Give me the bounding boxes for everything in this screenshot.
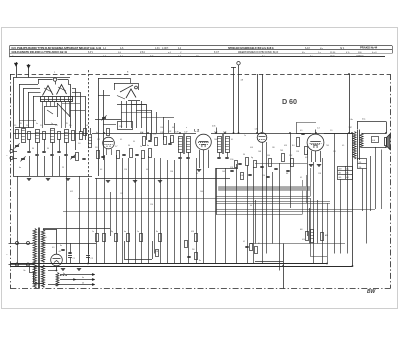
svg-text:8a: 8a (60, 245, 62, 247)
svg-text:400: 400 (300, 229, 303, 231)
block A second row caps (20, 139, 75, 176)
svg-text:1.7: 1.7 (115, 146, 117, 148)
svg-text:150: 150 (192, 249, 195, 251)
svg-text:25 %: 25 % (330, 55, 335, 57)
detector stage nested rectangles (216, 168, 375, 215)
svg-text:1.9: 1.9 (86, 125, 88, 127)
svg-text:1.67: 1.67 (349, 127, 352, 129)
svg-text:1.43: 1.43 (222, 171, 225, 173)
IF transformer 2 coils (212, 126, 230, 159)
svg-text:L 2: L 2 (194, 129, 199, 133)
svg-text:6 A 8: 6 A 8 (305, 47, 311, 50)
svg-text:SPOELEN AFGEREGELD 452 kc/s 6: SPOELEN AFGEREGELD 452 kc/s 6A8 G (228, 47, 274, 50)
svg-text:1.16: 1.16 (119, 126, 122, 128)
svg-text:1.OKT.: 1.OKT. (162, 48, 169, 50)
block A top frame (13, 78, 70, 177)
svg-text:4.63: 4.63 (339, 168, 342, 170)
block A extra right components (76, 129, 87, 161)
svg-text:8p: 8p (111, 231, 113, 233)
valve V2 electrodes (117, 85, 140, 101)
antenna A1 (14, 62, 18, 78)
svg-text:1.20: 1.20 (124, 169, 127, 171)
svg-text:8a: 8a (24, 270, 26, 272)
draughtsman signature BW (367, 289, 377, 295)
svg-text:4.2: 4.2 (243, 241, 245, 243)
valve V4 pin wires (309, 151, 321, 167)
misc value annotations (20, 123, 344, 207)
bus wire y201 right (216, 201, 330, 203)
svg-text:4.3: 4.3 (100, 169, 102, 171)
block B right stair frame (131, 104, 164, 140)
output transformer T2 (349, 119, 366, 161)
svg-text:4.9: 4.9 (52, 247, 54, 249)
bias components above bus (185, 241, 260, 263)
svg-text:1.22: 1.22 (120, 193, 123, 195)
valve V1 electrodes (43, 85, 67, 96)
svg-text:1.50: 1.50 (230, 159, 233, 161)
AVC shaded bus bar (219, 187, 311, 191)
block A right stair frame (62, 84, 86, 150)
rectifier output wire (43, 244, 57, 271)
IF transformer 1 coils (175, 132, 191, 179)
svg-text:4g: 4g (251, 157, 253, 159)
svg-text:4.1: 4.1 (300, 177, 302, 179)
svg-text:4 %: 4 % (150, 55, 154, 57)
svg-text:4.4: 4.4 (172, 127, 174, 129)
svg-text:4a: 4a (124, 231, 126, 233)
svg-text:50: 50 (243, 154, 245, 156)
AVC line vertical (262, 74, 264, 132)
svg-text:1.8: 1.8 (95, 147, 97, 149)
coupling cluster C-L1 (140, 133, 158, 146)
svg-text:150: 150 (272, 147, 275, 149)
tuning gang dashed link (88, 70, 90, 180)
svg-text:4a: 4a (82, 277, 84, 279)
svg-text:1.9: 1.9 (330, 130, 332, 132)
svg-text:1.40: 1.40 (200, 191, 203, 193)
HT+ bus double line (10, 264, 352, 267)
detector stage components (230, 150, 294, 180)
svg-text:1.5: 1.5 (69, 125, 71, 127)
svg-text:4.4: 4.4 (250, 205, 252, 207)
block B mid row labels (96, 129, 143, 136)
svg-text:6 N 7: 6 N 7 (214, 52, 220, 54)
svg-text:460: 460 (339, 173, 342, 175)
valve V1 base (pins bar) (40, 97, 73, 102)
block B left frame verticals (95, 78, 131, 176)
bus wire y211 (63, 211, 352, 213)
svg-text:4 %: 4 % (346, 52, 350, 54)
valve V3 envelope (196, 134, 212, 150)
output step wires (310, 198, 328, 264)
svg-text:50: 50 (128, 145, 130, 147)
svg-text:4.8: 4.8 (241, 80, 243, 82)
schematic dashed border (10, 74, 390, 289)
valve V3 pin wires (197, 150, 209, 172)
mains switch (24, 267, 35, 273)
svg-text:a: a (186, 127, 187, 129)
svg-text:4.07: 4.07 (305, 157, 308, 159)
svg-text:743: 743 (280, 150, 283, 152)
return corner x283 (255, 244, 284, 289)
wire from switch to IF (231, 67, 236, 133)
svg-text:30: 30 (32, 148, 34, 150)
svg-text:4.61: 4.61 (339, 177, 342, 179)
speaker terminal labels (358, 159, 367, 169)
title block row 1 text (12, 46, 378, 50)
svg-text:4.35: 4.35 (212, 126, 215, 128)
title block row 3 text (12, 55, 364, 57)
valve V5 detector envelope (255, 129, 267, 143)
svg-text:8a: 8a (156, 231, 158, 233)
svg-text:4b: 4b (82, 283, 84, 285)
svg-text:50: 50 (258, 243, 260, 245)
HT feed vertical (241, 74, 258, 133)
svg-text:1a: 1a (92, 231, 94, 233)
svg-text:WEERSTANDEN IN OHM COND. IN p: WEERSTANDEN IN OHM COND. IN pF (238, 51, 279, 54)
svg-text:1.30: 1.30 (160, 127, 163, 129)
svg-text:8.8: 8.8 (286, 173, 288, 175)
valve V2 pin wires (117, 101, 151, 128)
block B small grid box (118, 122, 133, 130)
svg-text:1.3 b: 1.3 b (155, 48, 161, 50)
output transformer top wire (324, 122, 387, 134)
svg-text:1936/37: 1936/37 (356, 55, 364, 57)
block A bottom bus (13, 177, 92, 181)
svg-text:1.12: 1.12 (97, 139, 100, 141)
long drop wires (decoupling comb) (18, 133, 376, 271)
HT rail y243 right (250, 243, 345, 245)
HT wire from rectifier (43, 229, 111, 244)
svg-text:1.53: 1.53 (296, 151, 299, 153)
valve V1 top cap (53, 78, 56, 85)
valve V1 anode slant wiring (44, 103, 70, 125)
svg-text:1.1: 1.1 (14, 125, 16, 127)
svg-text:1.2: 1.2 (26, 125, 28, 127)
svg-text:1.44: 1.44 (214, 139, 217, 141)
svg-text:4a: 4a (19, 167, 21, 169)
decoupling resistors row y236 (92, 231, 198, 242)
svg-text:1n: 1n (137, 231, 139, 233)
block B bottom bus (95, 179, 230, 183)
speaker return wire (381, 150, 383, 210)
svg-text:1.51: 1.51 (230, 167, 233, 169)
svg-text:1.11: 1.11 (333, 151, 336, 153)
svg-text:8a: 8a (199, 260, 201, 262)
svg-text:7.45: 7.45 (326, 145, 329, 147)
svg-text:1.58: 1.58 (318, 173, 321, 175)
block A value labels (14, 125, 80, 169)
svg-text:1.4a: 1.4a (350, 119, 353, 121)
valve V2 top frame (114, 83, 139, 90)
svg-text:1n: 1n (140, 146, 142, 148)
aerial-earth terminals on left border (7, 150, 18, 160)
filter capacitor C2 (86, 243, 94, 264)
svg-text:25 30: 25 30 (330, 52, 336, 54)
svg-text:2.5 A: 2.5 A (140, 51, 145, 54)
valve V4 grid components (292, 123, 316, 155)
svg-text:5.0: 5.0 (45, 237, 47, 239)
svg-text:4.64: 4.64 (372, 140, 375, 142)
svg-text:30: 30 (47, 148, 49, 150)
svg-text:50: 50 (196, 173, 198, 175)
svg-text:745: 745 (359, 162, 362, 164)
output decoupling cluster (300, 229, 328, 243)
block B bias components (95, 145, 152, 159)
valve V1 pin wires below base (43, 101, 70, 128)
svg-text:4n: 4n (36, 123, 38, 125)
svg-text:4.04: 4.04 (240, 175, 243, 177)
rectifier valve V6 (43, 229, 62, 266)
title block row 2 text (12, 50, 378, 54)
title block frame (10, 46, 393, 58)
block A tuning row components (14, 129, 82, 149)
svg-text:4.8: 4.8 (59, 251, 61, 253)
screen feed vertical right (349, 74, 351, 133)
svg-text:4a: 4a (147, 145, 149, 147)
svg-text:8.4: 8.4 (292, 145, 294, 147)
power transformer T1 primary (33, 229, 36, 288)
heater supply arrows (48, 271, 95, 287)
svg-text:1.36: 1.36 (170, 171, 173, 173)
oscillator coupling cluster (160, 131, 174, 145)
speaker wires (362, 132, 387, 148)
svg-text:1.32: 1.32 (168, 131, 171, 133)
svg-text:746: 746 (359, 167, 362, 169)
svg-text:6.3 V: 6.3 V (88, 52, 94, 54)
svg-text:4.12: 4.12 (70, 191, 73, 193)
svg-text:1.54: 1.54 (262, 175, 265, 177)
voltage table (338, 166, 353, 180)
svg-text:4.05: 4.05 (250, 147, 253, 149)
stair wires to IF row (163, 118, 175, 134)
antenna A2 (27, 64, 31, 78)
svg-text:150: 150 (267, 155, 270, 157)
loudspeaker (385, 134, 391, 150)
dial lamp (237, 62, 240, 134)
svg-text:4.5: 4.5 (342, 145, 344, 147)
valve V4 envelope (output) (307, 128, 324, 151)
svg-text:4.59: 4.59 (191, 231, 194, 233)
svg-text:1.4: 1.4 (55, 125, 57, 127)
mains to primary corner wire (34, 273, 45, 284)
grid resistor R5 (86, 125, 92, 148)
svg-text:1n: 1n (244, 135, 246, 137)
AVC return wire y198 (78, 198, 310, 200)
mains input terminals (7, 242, 34, 267)
svg-text:BW: BW (367, 289, 377, 295)
svg-text:4.55: 4.55 (284, 145, 287, 147)
small caps at bus left (60, 245, 81, 276)
detector output wire y163 (255, 163, 307, 165)
svg-text:4.10: 4.10 (302, 239, 305, 241)
filter capacitor C1 (68, 243, 76, 264)
svg-text:4.9: 4.9 (300, 130, 302, 132)
power transformer T1 heater secondary (41, 265, 44, 287)
coil labels above blocks (54, 72, 129, 74)
svg-text:GOLFLENGTE 200-2000 m TYPE AKK: GOLFLENGTE 200-2000 m TYPE AKKU 4.B 41 (12, 50, 68, 54)
svg-text:4.1: 4.1 (120, 139, 122, 141)
svg-text:1.48: 1.48 (258, 151, 261, 153)
svg-text:4.1: 4.1 (231, 139, 233, 141)
speaker matching box 4.64 (372, 137, 379, 143)
svg-text:50: 50 (133, 141, 135, 143)
power transformer T1 core (39, 228, 40, 289)
tone network U-loop (124, 241, 159, 260)
svg-text:D 60: D 60 (282, 97, 297, 106)
svg-text:1.6: 1.6 (78, 143, 80, 145)
svg-text:4.5a: 4.5a (362, 119, 365, 121)
svg-text:25: 25 (62, 167, 64, 169)
svg-text:N.V. PHILIPS RADIO TYPE D-60 S: N.V. PHILIPS RADIO TYPE D-60 SCHEMA APPA… (12, 46, 102, 50)
svg-text:4.6: 4.6 (146, 169, 148, 171)
main signal row wire (13, 133, 352, 135)
block A left stair frame (15, 84, 41, 128)
screen rail vertical x352 (352, 133, 354, 266)
svg-text:PRAXIS Nr.44: PRAXIS Nr.44 (360, 46, 378, 50)
valve V2a envelope (mixer circle) (103, 137, 115, 155)
svg-text:1.3: 1.3 (40, 125, 42, 127)
svg-text:1n: 1n (51, 123, 53, 125)
svg-text:1.24: 1.24 (150, 204, 153, 206)
power transformer T1 HT secondary (41, 230, 46, 263)
